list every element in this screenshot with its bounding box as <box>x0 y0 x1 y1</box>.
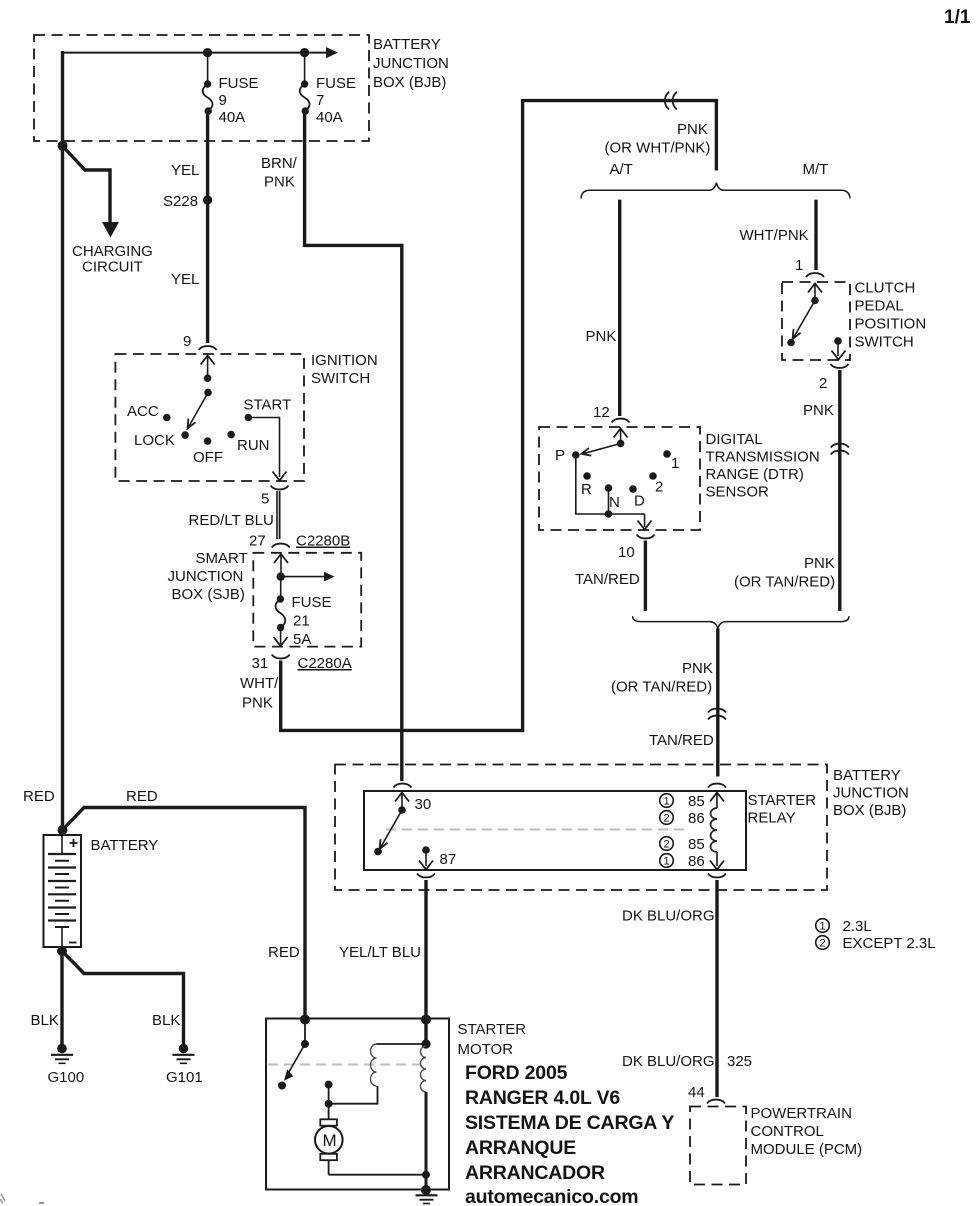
relay internal dashed separator <box>386 829 688 831</box>
connector at relay pin 86 <box>708 874 726 878</box>
svg-text:FUSE: FUSE <box>219 75 259 92</box>
node solenoid feed <box>300 1015 310 1025</box>
svg-text:BATTERY: BATTERY <box>833 767 901 784</box>
svg-text:86: 86 <box>688 810 705 827</box>
clutch switch entry arrow pin 1 <box>808 284 822 301</box>
connector at relay pin 30 <box>393 784 411 788</box>
svg-text:POWERTRAIN: POWERTRAIN <box>751 1105 852 1122</box>
contact P <box>572 451 580 459</box>
connector at PCM pin 44 <box>707 1100 725 1104</box>
battery symbol <box>44 835 82 947</box>
svg-text:MOTOR: MOTOR <box>458 1041 514 1058</box>
svg-text:325: 325 <box>727 1053 752 1070</box>
circled 1 pin 86 label <box>660 853 705 870</box>
svg-text:86: 86 <box>688 853 705 870</box>
svg-text:(OR TAN/RED): (OR TAN/RED) <box>611 679 712 696</box>
svg-text:30: 30 <box>415 796 432 813</box>
connector at clutch switch pin 2 <box>831 364 849 368</box>
wire feed to coil <box>424 1020 427 1047</box>
svg-text:(OR TAN/RED): (OR TAN/RED) <box>734 574 835 591</box>
solenoid switch arm <box>284 1044 305 1081</box>
ignition switch pivot nodes <box>204 374 212 382</box>
contact START <box>245 414 253 422</box>
wire START to pin 5 <box>248 418 279 478</box>
in-line connector on TAN/RED wire <box>708 709 726 720</box>
svg-text:P: P <box>555 447 565 464</box>
charging circuit arrowhead <box>102 222 119 238</box>
wire BLK battery to G101 <box>62 951 184 1044</box>
node N junction <box>605 510 613 518</box>
wire WHT/PNK from SJB up to transmission branch <box>281 101 717 731</box>
svg-text:BOX (SJB): BOX (SJB) <box>172 586 245 603</box>
svg-text:FORD 2005: FORD 2005 <box>465 1062 568 1084</box>
svg-text:R: R <box>581 481 592 498</box>
svg-text:YEL: YEL <box>171 162 199 179</box>
svg-text:SENSOR: SENSOR <box>706 484 770 501</box>
connector at ignition switch pin 9 <box>199 346 217 350</box>
fuse 7 <box>300 80 310 114</box>
circled 2 pin 86 label <box>660 810 705 827</box>
ground G101 <box>173 1044 195 1064</box>
svg-text:2: 2 <box>664 813 670 825</box>
contact RUN <box>227 431 235 439</box>
svg-text:automecanico.com: automecanico.com <box>465 1186 638 1206</box>
svg-text:2: 2 <box>664 839 670 851</box>
wire tap to fuse 21 <box>280 577 282 597</box>
svg-text:ARRANCADOR: ARRANCADOR <box>465 1162 605 1184</box>
connector C2280A <box>272 655 290 659</box>
svg-text:PNK: PNK <box>682 660 713 677</box>
svg-text:DK BLU/ORG: DK BLU/ORG <box>622 1053 715 1070</box>
svg-text:RED: RED <box>23 788 55 805</box>
svg-text:5: 5 <box>261 491 269 508</box>
svg-text:1/1: 1/1 <box>944 7 971 28</box>
wire BRN/PNK from fuse 7 to starter relay pin 30 <box>305 111 402 781</box>
contact ACC <box>163 414 171 422</box>
svg-text:BLK: BLK <box>31 1012 59 1029</box>
svg-text:OFF: OFF <box>193 449 223 466</box>
svg-text:D: D <box>634 493 645 510</box>
svg-text:2: 2 <box>820 938 826 950</box>
svg-text:RED: RED <box>268 944 300 961</box>
svg-text:31: 31 <box>252 655 269 672</box>
node battery positive junction <box>58 825 68 835</box>
svg-text:44: 44 <box>688 1084 705 1101</box>
digital transmission range (DTR) sensor dashed outline <box>539 427 700 530</box>
connector C2280B <box>272 544 290 548</box>
wire YEL/LT BLU relay 87 to starter motor <box>424 880 427 1018</box>
svg-text:CLUTCH: CLUTCH <box>855 280 916 297</box>
wire to charging circuit <box>63 146 111 223</box>
wire bus to fuse 7 <box>304 53 306 82</box>
svg-text:1: 1 <box>664 796 670 808</box>
svg-text:85: 85 <box>688 793 705 810</box>
svg-text:2: 2 <box>819 375 827 392</box>
svg-text:10: 10 <box>618 544 635 561</box>
svg-text:PNK: PNK <box>804 555 835 572</box>
wire RED battery to starter motor <box>63 808 306 1019</box>
svg-text:POSITION: POSITION <box>855 316 927 333</box>
solenoid open contact <box>278 1082 286 1090</box>
wire N to output <box>608 488 610 514</box>
svg-text:12: 12 <box>593 404 610 421</box>
ignition switch dashed outline <box>115 354 304 481</box>
DTR entry arrow pin 12 <box>614 429 628 444</box>
svg-text:LOCK: LOCK <box>134 432 175 449</box>
svg-text:5A: 5A <box>293 631 311 648</box>
battery junction box (BJB) dashed outline lower <box>335 765 827 891</box>
wire A/T PNK to DTR sensor <box>618 200 621 416</box>
DTR wiper arm to P <box>582 444 621 456</box>
wire DK BLU/ORG relay to PCM <box>715 880 718 1097</box>
connector at relay pin 85 <box>708 784 726 788</box>
wire contact to motor node <box>328 1085 330 1104</box>
fuse 9 <box>203 80 213 114</box>
bus arrowhead <box>326 47 338 58</box>
svg-text:87: 87 <box>440 851 457 868</box>
svg-text:1: 1 <box>795 257 803 274</box>
clutch switch exit arrow pin 2 <box>832 341 846 360</box>
node at BJB border <box>58 141 68 151</box>
field coil right <box>421 1046 427 1092</box>
wire RED battery feed (left) <box>61 51 64 829</box>
svg-text:M: M <box>323 1131 337 1150</box>
svg-text:PNK: PNK <box>242 695 273 712</box>
svg-text:2.3L: 2.3L <box>843 918 872 935</box>
svg-text:85: 85 <box>688 836 705 853</box>
wire PNK from clutch switch <box>838 370 841 611</box>
node YEL/LT BLU feed <box>421 1015 431 1025</box>
svg-text:9: 9 <box>183 333 191 350</box>
svg-text:FUSE: FUSE <box>292 594 332 611</box>
node coil tap <box>421 1039 430 1048</box>
ignition switch entry arrow pin 9 <box>201 356 215 378</box>
wire coil to ground <box>425 1092 428 1190</box>
connector at DTR pin 10 <box>637 535 655 539</box>
SJB exit arrow pin 31 <box>274 628 288 647</box>
svg-text:BRN/: BRN/ <box>261 155 298 172</box>
svg-text:YEL/LT BLU: YEL/LT BLU <box>339 944 421 961</box>
circled 2 pin 85 label <box>660 836 705 853</box>
svg-text:1: 1 <box>671 455 679 472</box>
in-line connector on clutch PNK wire <box>831 444 849 455</box>
fuse 21 <box>276 595 286 631</box>
relay switch arm <box>380 810 402 849</box>
svg-text:40A: 40A <box>219 109 246 126</box>
DTR exit arrow pin 10 <box>638 514 652 530</box>
relay entry arrow pin 30 <box>395 793 409 810</box>
starter motor outline <box>266 1019 449 1190</box>
relay coil entry arrow pin 85 <box>710 793 724 809</box>
svg-text:G101: G101 <box>166 1069 203 1086</box>
svg-text:SWITCH: SWITCH <box>311 370 370 387</box>
clutch switch pivot <box>811 297 819 305</box>
node at fuse 7 tap <box>300 48 309 57</box>
node SJB feed tap <box>277 572 285 580</box>
svg-text:RUN: RUN <box>237 437 270 454</box>
svg-text:1: 1 <box>820 921 826 933</box>
svg-text:RANGER 4.0L V6: RANGER 4.0L V6 <box>465 1087 620 1109</box>
relay output contact 87 <box>422 846 430 854</box>
svg-text:STARTER: STARTER <box>748 792 817 809</box>
svg-text:27: 27 <box>249 533 266 550</box>
svg-text:MODULE (PCM): MODULE (PCM) <box>751 1141 863 1158</box>
svg-text:PNK: PNK <box>264 174 295 191</box>
svg-text:RELAY: RELAY <box>748 810 796 827</box>
contact D <box>629 485 637 493</box>
field coil left <box>371 1044 377 1086</box>
contact 2 <box>649 472 657 480</box>
svg-text:BOX (BJB): BOX (BJB) <box>833 802 906 819</box>
clutch switch arm <box>793 301 815 340</box>
svg-text:A/T: A/T <box>610 161 633 178</box>
svg-text:JUNCTION: JUNCTION <box>833 785 909 802</box>
contact 1 <box>663 450 671 458</box>
svg-text:START: START <box>244 397 292 414</box>
ignition switch exit arrow pin 5 <box>273 472 287 481</box>
svg-text:BOX (BJB): BOX (BJB) <box>373 74 446 91</box>
svg-text:(OR WHT/PNK): (OR WHT/PNK) <box>605 140 711 157</box>
wire RED/LT BLU pin5 to C2280B <box>279 491 281 539</box>
brace transmission split <box>581 183 850 199</box>
contact N <box>605 484 613 492</box>
title FORD 2005 RANGER <box>465 1062 674 1206</box>
relay contact <box>374 848 382 856</box>
node battery negative junction <box>57 946 67 956</box>
connector at ignition pin 5 <box>271 486 289 490</box>
node ground exit <box>421 1185 431 1195</box>
relay contact pivot <box>398 806 406 814</box>
wire M/T to clutch switch <box>814 200 817 270</box>
brace transmission merge <box>633 616 849 628</box>
solenoid fixed contact <box>325 1081 333 1089</box>
stray page marks bottom left <box>0 1194 5 1203</box>
wire coil top link <box>377 1043 427 1045</box>
relay coil <box>711 808 718 852</box>
svg-text:CONTROL: CONTROL <box>751 1123 824 1140</box>
connector at DTR sensor pin 12 <box>612 419 630 423</box>
svg-text:G100: G100 <box>48 1069 85 1086</box>
svg-text:ACC: ACC <box>127 403 159 420</box>
svg-text:2: 2 <box>655 479 663 496</box>
svg-text:PNK: PNK <box>803 402 834 419</box>
svg-text:PEDAL: PEDAL <box>855 298 904 315</box>
legend circled 2 EXCEPT 2.3L <box>816 935 936 952</box>
motor M <box>315 1104 343 1175</box>
svg-text:CIRCUIT: CIRCUIT <box>82 259 143 276</box>
svg-text:N: N <box>609 494 620 511</box>
connector at clutch switch pin 1 <box>806 273 824 277</box>
contact OFF <box>204 437 212 445</box>
starter motor internal dashed separator <box>268 1064 421 1066</box>
smart junction box (SJB) dashed outline <box>253 553 361 647</box>
bus wire inside BJB <box>63 52 330 54</box>
svg-text:7: 7 <box>316 92 324 109</box>
ground starter motor <box>416 1195 438 1203</box>
svg-text:STARTER: STARTER <box>458 1021 527 1038</box>
wire PNK (OR TAN/RED) merged to starter relay <box>716 628 719 776</box>
svg-text:RANGE (DTR): RANGE (DTR) <box>706 466 804 483</box>
node motor junction <box>325 1100 333 1108</box>
svg-text:SMART: SMART <box>196 550 248 567</box>
solenoid switch pivot <box>301 1040 309 1048</box>
splice S228 <box>203 195 212 204</box>
svg-text:EXCEPT 2.3L: EXCEPT 2.3L <box>843 935 936 952</box>
clutch switch contact <box>787 339 795 347</box>
svg-text:M/T: M/T <box>803 161 829 178</box>
svg-text:YEL: YEL <box>171 271 199 288</box>
svg-text:1: 1 <box>664 856 670 868</box>
svg-text:RED: RED <box>126 788 158 805</box>
svg-text:BATTERY: BATTERY <box>373 36 441 53</box>
svg-text:21: 21 <box>293 613 310 630</box>
legend circled 1 2.3L <box>816 918 872 935</box>
svg-text:FUSE: FUSE <box>316 75 356 92</box>
svg-text:PNK: PNK <box>586 328 617 345</box>
svg-text:TAN/RED: TAN/RED <box>575 571 640 588</box>
solenoid switch feed <box>304 1020 306 1044</box>
svg-text:S228: S228 <box>163 193 198 210</box>
relay coil exit arrow pin 86 <box>710 852 724 870</box>
svg-text:IGNITION: IGNITION <box>311 352 378 369</box>
svg-text:RED/LT BLU: RED/LT BLU <box>189 512 274 529</box>
wire motor to ground <box>329 1174 426 1176</box>
circled 1 pin 85 label <box>660 793 705 810</box>
svg-text:SWITCH: SWITCH <box>855 334 914 351</box>
node motor ground junction <box>422 1171 430 1179</box>
svg-text:JUNCTION: JUNCTION <box>373 55 449 72</box>
contact LOCK <box>181 431 189 439</box>
svg-text:SISTEMA DE CARGA Y: SISTEMA DE CARGA Y <box>465 1112 674 1134</box>
node at fuse 9 tap <box>203 48 212 57</box>
svg-text:JUNCTION: JUNCTION <box>168 568 244 585</box>
SJB entry arrow pin 27 <box>274 554 288 576</box>
svg-text:40A: 40A <box>316 109 343 126</box>
svg-text:WHT/PNK: WHT/PNK <box>740 227 809 244</box>
svg-text:C2280B: C2280B <box>296 533 350 550</box>
svg-text:DIGITAL: DIGITAL <box>706 431 763 448</box>
svg-text:TAN/RED: TAN/RED <box>649 732 714 749</box>
wire BLK battery to G100 <box>60 947 63 1044</box>
clutch pedal position switch dashed outline <box>782 282 850 360</box>
battery junction box (BJB) dashed outline <box>34 35 369 141</box>
wire motor node to field coil <box>329 1086 378 1104</box>
svg-text:DK BLU/ORG: DK BLU/ORG <box>622 908 715 925</box>
svg-text:WHT/: WHT/ <box>240 675 279 692</box>
svg-text:PNK: PNK <box>677 121 708 138</box>
DTR pivot node <box>617 440 625 448</box>
wire YEL from fuse 9 to ignition switch <box>206 111 209 343</box>
svg-text:9: 9 <box>219 92 227 109</box>
connector at relay pin 87 <box>417 874 435 878</box>
SJB internal feed arrow <box>281 572 335 582</box>
clutch switch output contact <box>834 337 842 345</box>
wire bus to fuse 9 <box>207 53 209 82</box>
svg-text:TRANSMISSION: TRANSMISSION <box>706 449 820 466</box>
svg-text:CHARGING: CHARGING <box>72 243 153 260</box>
svg-text:BATTERY: BATTERY <box>91 837 159 854</box>
wire TAN/RED from DTR <box>644 541 647 611</box>
starter relay outline <box>364 791 746 870</box>
contact R <box>583 472 591 480</box>
ground G100 <box>51 1044 73 1064</box>
in-line connector on PNK wire <box>665 92 677 110</box>
svg-text:BLK: BLK <box>152 1012 180 1029</box>
wire P to output <box>576 455 645 514</box>
ignition switch wiper arm <box>188 393 209 429</box>
svg-text:ARRANQUE: ARRANQUE <box>465 1137 576 1159</box>
powertrain control module (PCM) dashed outline <box>690 1107 746 1185</box>
relay exit arrow pin 87 <box>419 850 433 870</box>
svg-text:C2280A: C2280A <box>298 655 352 672</box>
